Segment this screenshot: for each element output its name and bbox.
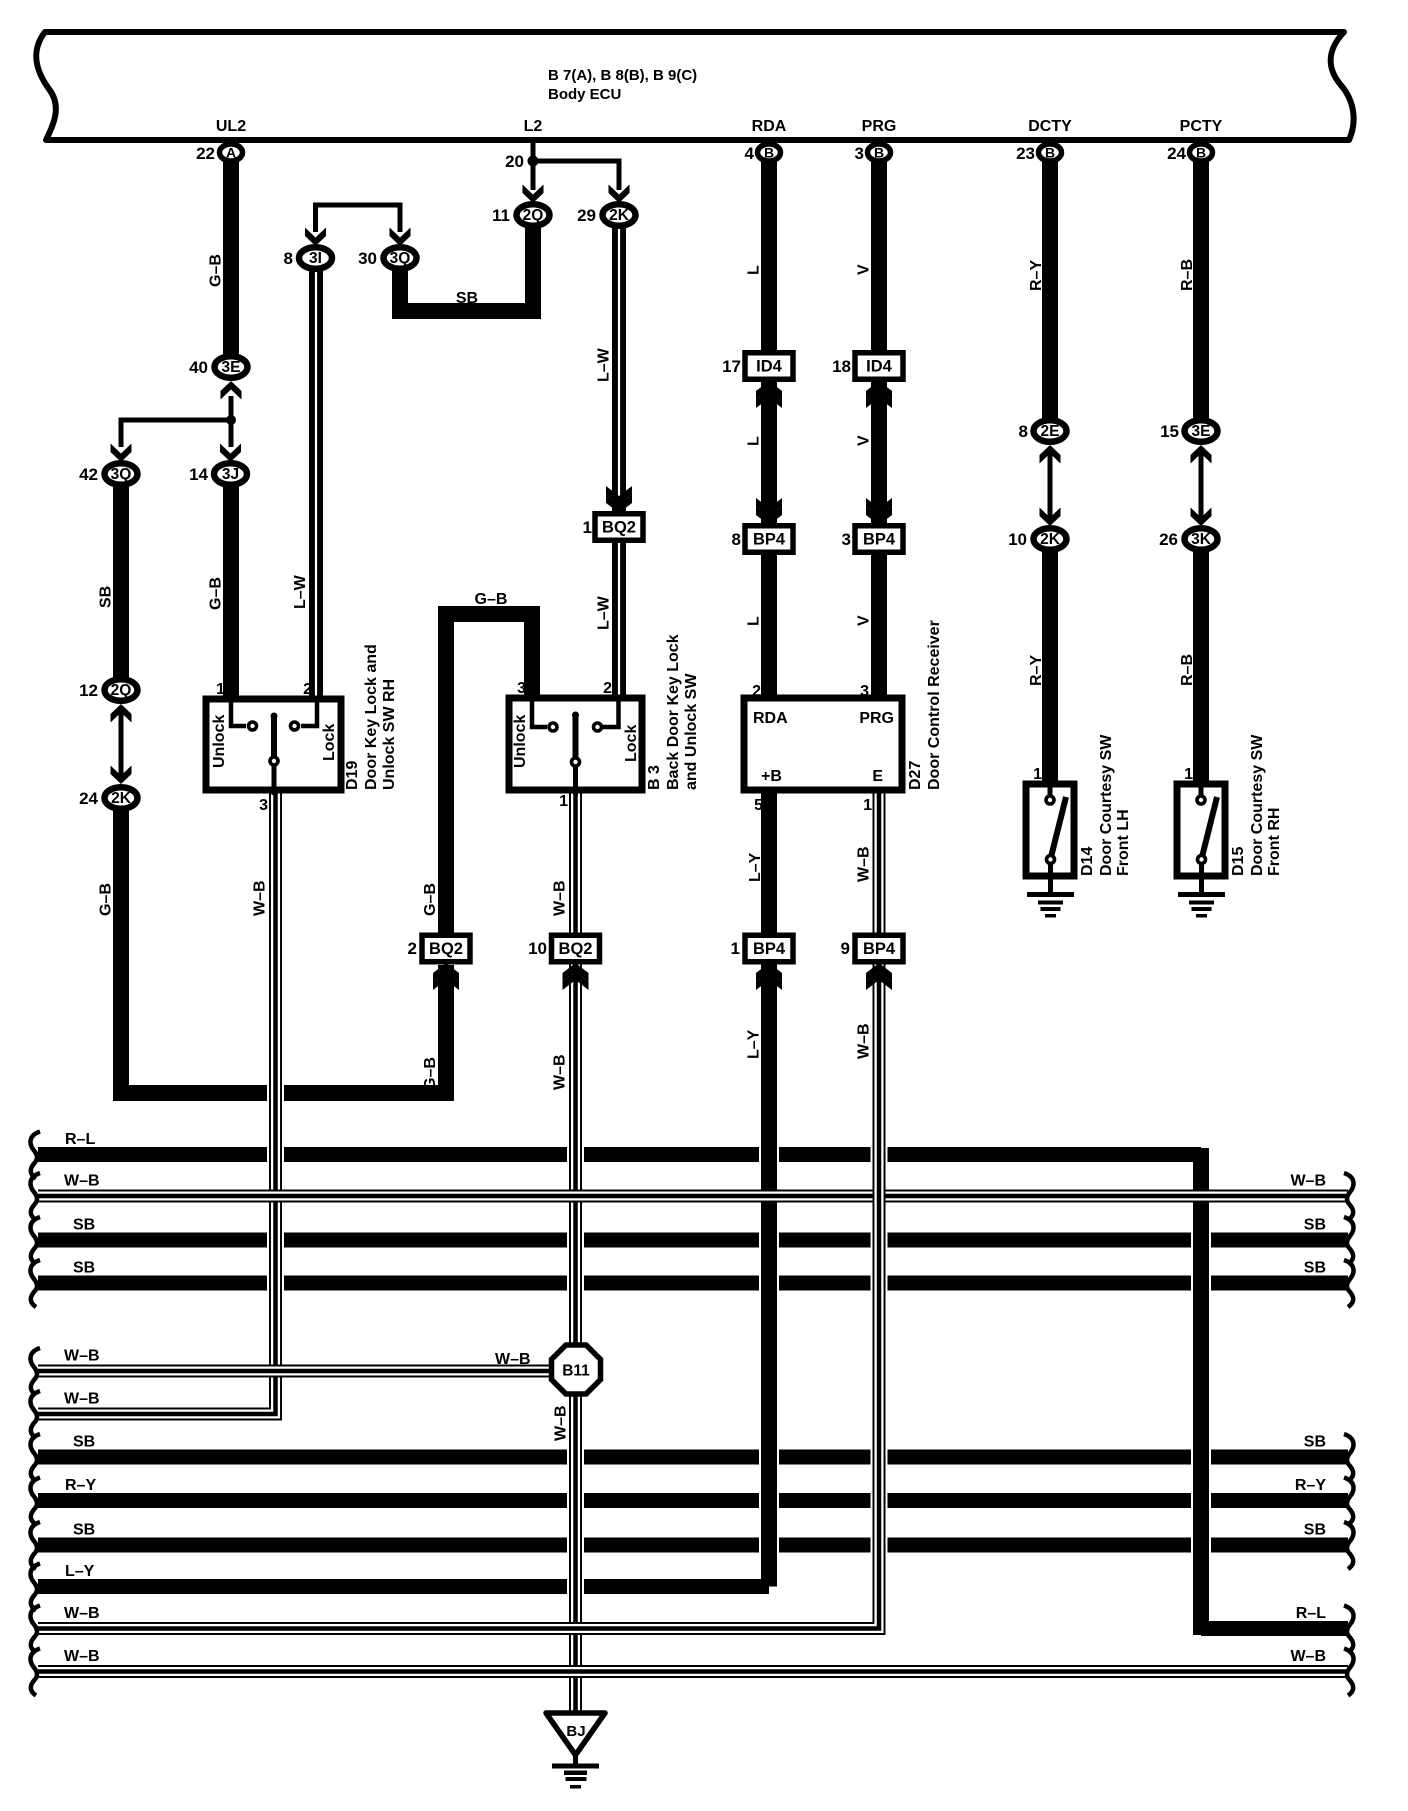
svg-text:18: 18 <box>832 357 851 376</box>
svg-text:B: B <box>1196 145 1206 161</box>
svg-text:3I: 3I <box>309 250 322 267</box>
switch B3 Back Door Key Lock and Unlock SW <box>509 680 642 810</box>
connector B pin 23 DCTY <box>1016 144 1061 163</box>
connector 2K pin 10 <box>1008 528 1066 550</box>
connector 2Q pin 12 <box>79 679 137 701</box>
wire 3I to D19 pin2 L-W <box>309 269 323 701</box>
svg-text:4: 4 <box>745 144 755 163</box>
svg-text:8: 8 <box>1019 422 1028 441</box>
ECU pin label UL2 <box>216 118 246 135</box>
wire 3J to D19 pin1 G-B <box>223 485 239 702</box>
svg-text:SB: SB <box>73 1434 95 1451</box>
switch D14 Door Courtesy SW Front LH <box>1026 766 1074 892</box>
label G-B link <box>475 591 508 608</box>
wire SB link 3Q-2Q <box>400 226 533 311</box>
svg-text:G–B: G–B <box>475 591 508 608</box>
wire PRG column lower <box>871 550 887 701</box>
svg-text:1: 1 <box>731 939 740 958</box>
wire 2K to BQ2 L-W upper <box>612 226 626 516</box>
svg-text:B 3: B 3 <box>646 765 663 790</box>
bus break symbols left <box>30 1132 40 1696</box>
label SB link <box>456 290 478 307</box>
junction box ID4 pin 17 <box>722 353 793 380</box>
wire PRG column mid <box>871 378 887 528</box>
svg-text:Unlock SW RH: Unlock SW RH <box>381 679 398 790</box>
svg-text:DCTY: DCTY <box>1028 118 1072 135</box>
svg-text:L–W: L–W <box>596 595 613 630</box>
arrow up into 3E <box>221 381 242 400</box>
svg-text:23: 23 <box>1016 144 1035 163</box>
connector B pin 4 RDA <box>745 144 781 163</box>
arrow up into BP4 9 <box>866 963 892 990</box>
svg-text:PCTY: PCTY <box>1180 118 1223 135</box>
junction box BP4 pin 8 <box>732 526 793 553</box>
svg-text:+B: +B <box>761 768 782 785</box>
svg-text:L: L <box>746 616 763 626</box>
node pin 20 junction <box>505 152 538 171</box>
svg-text:R–B: R–B <box>1179 654 1196 686</box>
svg-text:BP4: BP4 <box>753 940 786 958</box>
svg-text:PRG: PRG <box>862 118 897 135</box>
svg-text:11: 11 <box>492 206 510 225</box>
arrow down into BP4 8 <box>756 498 782 525</box>
svg-text:10: 10 <box>1008 530 1027 549</box>
bus R-L bottom right <box>1201 1621 1348 1636</box>
wire bridge 3I to 3Q <box>316 205 401 232</box>
svg-text:Body ECU: Body ECU <box>548 86 621 103</box>
svg-text:W–B: W–B <box>64 1348 100 1365</box>
label D27 <box>907 620 943 790</box>
svg-text:3: 3 <box>842 530 851 549</box>
ECU pin label DCTY <box>1028 118 1072 135</box>
connector 3J pin 14 <box>189 463 247 485</box>
bus SB 4 <box>38 1276 1348 1291</box>
svg-text:24: 24 <box>79 789 98 808</box>
junction box BQ2 pin 2 <box>408 935 470 962</box>
svg-text:BQ2: BQ2 <box>602 519 636 537</box>
label B3 <box>646 634 700 790</box>
wire DCTY column R-Y lower <box>1042 550 1058 787</box>
svg-text:40: 40 <box>189 358 208 377</box>
junction box BP4 pin 9 <box>841 935 903 962</box>
svg-text:SB: SB <box>73 1522 95 1539</box>
svg-text:Unlock: Unlock <box>512 715 529 768</box>
connector 3E pin 40 <box>189 356 247 378</box>
svg-text:L: L <box>746 265 763 275</box>
wire UL2 G-B upper <box>223 155 239 356</box>
arrow into 2Q pin 11 <box>523 185 544 204</box>
connector 2Q pin 11 <box>492 204 549 226</box>
arrow up into BQ2 10 <box>563 963 589 990</box>
svg-text:Door Courtesy SW: Door Courtesy SW <box>1249 734 1266 876</box>
svg-text:30: 30 <box>358 249 377 268</box>
svg-text:D19: D19 <box>344 761 361 790</box>
svg-text:W–B: W–B <box>1290 1173 1326 1190</box>
svg-text:R–Y: R–Y <box>1028 260 1045 291</box>
connector 3Q pin 30 <box>358 247 416 269</box>
svg-text:V: V <box>856 435 873 446</box>
svg-text:2K: 2K <box>111 790 132 807</box>
svg-text:12: 12 <box>79 681 98 700</box>
svg-text:3J: 3J <box>222 466 239 483</box>
svg-text:R–Y: R–Y <box>1295 1477 1326 1494</box>
ECU pin label RDA <box>752 118 787 135</box>
bus R-Y 8 <box>38 1493 1348 1508</box>
svg-text:B: B <box>874 145 884 161</box>
bus SB 7 <box>38 1450 1348 1465</box>
svg-text:Front LH: Front LH <box>1115 809 1132 876</box>
svg-text:2Q: 2Q <box>111 682 132 699</box>
svg-text:Door Key Lock and: Door Key Lock and <box>363 644 380 790</box>
junction box BQ2 pin 10 <box>528 935 599 962</box>
wire BQ2 to B3 pin2 L-W lower <box>612 538 626 701</box>
wire W-B vertical B3 pin1 to ground BJ <box>567 790 584 1713</box>
switch D15 Door Courtesy SW Front RH <box>1177 766 1225 892</box>
bus W-B 5 to B11 <box>38 1368 560 1375</box>
svg-text:1: 1 <box>216 681 225 698</box>
connector B pin 3 PRG <box>855 144 891 163</box>
svg-text:W–B: W–B <box>856 1023 873 1059</box>
svg-text:SB: SB <box>73 1260 95 1277</box>
svg-text:2: 2 <box>303 681 312 698</box>
svg-text:BQ2: BQ2 <box>429 940 463 958</box>
svg-text:W–B: W–B <box>64 1173 100 1190</box>
svg-text:D15: D15 <box>1230 847 1247 876</box>
connector B pin 24 PCTY <box>1167 144 1212 163</box>
svg-text:ID4: ID4 <box>756 358 783 376</box>
connector 3E pin 15 <box>1160 420 1217 442</box>
arrow down into BQ2 1 <box>606 486 632 513</box>
arrow into 2K pin 29 <box>609 185 630 204</box>
svg-text:2K: 2K <box>609 207 630 224</box>
svg-text:L: L <box>746 436 763 446</box>
junction box BP4 pin 1 <box>731 935 793 962</box>
svg-text:R–L: R–L <box>1296 1605 1326 1622</box>
svg-text:L–Y: L–Y <box>747 852 764 882</box>
svg-text:W–B: W–B <box>1290 1648 1326 1665</box>
connector 3Q pin 42 <box>79 463 137 485</box>
bus break symbols right <box>1344 1173 1354 1696</box>
wire labels rotated <box>98 254 1197 1441</box>
wire L2 pin 20 drop <box>531 140 536 161</box>
svg-text:L–Y: L–Y <box>746 1029 763 1059</box>
svg-text:SB: SB <box>98 586 115 608</box>
svg-text:3Q: 3Q <box>111 466 132 483</box>
svg-text:W–B: W–B <box>252 880 269 916</box>
svg-text:Lock: Lock <box>623 725 640 762</box>
svg-text:17: 17 <box>722 357 741 376</box>
svg-text:BP4: BP4 <box>863 531 896 549</box>
svg-text:3K: 3K <box>1191 531 1212 548</box>
arrow up into BP4 1 <box>756 963 782 990</box>
wire DCTY column R-Y upper <box>1042 158 1058 422</box>
svg-text:B11: B11 <box>562 1363 590 1380</box>
svg-text:PRG: PRG <box>859 710 894 727</box>
svg-text:3: 3 <box>259 797 268 814</box>
svg-text:1: 1 <box>1184 766 1193 783</box>
junction box BQ2 pin 1 <box>583 514 643 541</box>
connector 3I pin 8 <box>284 247 332 269</box>
ECU pin label L2 <box>524 118 543 135</box>
svg-text:Back Door Key Lock: Back Door Key Lock <box>665 634 682 790</box>
svg-text:8: 8 <box>732 530 741 549</box>
svg-text:2: 2 <box>408 939 417 958</box>
svg-text:5: 5 <box>754 797 763 814</box>
svg-text:R–B: R–B <box>1179 259 1196 291</box>
svg-text:W–B: W–B <box>856 846 873 882</box>
svg-text:G–B: G–B <box>422 1057 439 1090</box>
svg-text:Door Courtesy SW: Door Courtesy SW <box>1098 734 1115 876</box>
svg-text:G–B: G–B <box>208 577 225 610</box>
svg-text:V: V <box>856 615 873 626</box>
wire PCTY column R-B lower <box>1193 550 1209 787</box>
svg-text:20: 20 <box>505 152 524 171</box>
svg-text:E: E <box>872 768 883 785</box>
bus L-Y 10 <box>38 1579 769 1594</box>
svg-text:3: 3 <box>860 683 869 700</box>
connector 2E pin 8 <box>1019 420 1067 442</box>
wire L-Y vertical from BP4 <box>759 790 779 1587</box>
label D19 <box>344 644 398 790</box>
ECU pin label PCTY <box>1180 118 1223 135</box>
junction box ID4 pin 18 <box>832 353 903 380</box>
svg-text:BP4: BP4 <box>753 531 786 549</box>
svg-text:G–B: G–B <box>98 883 115 916</box>
svg-text:D27: D27 <box>907 761 924 790</box>
svg-text:14: 14 <box>189 465 208 484</box>
arrow into 3I pin 8 <box>305 228 326 247</box>
svg-text:W–B: W–B <box>552 1054 569 1090</box>
svg-text:Lock: Lock <box>321 724 338 761</box>
wire R-L vertical <box>1191 1148 1211 1635</box>
ground BJ <box>546 1713 605 1789</box>
svg-text:UL2: UL2 <box>216 118 246 135</box>
svg-text:SB: SB <box>73 1217 95 1234</box>
svg-text:RDA: RDA <box>753 710 788 727</box>
wire W-B D27 E to bottom corner bus 11 <box>38 790 888 1632</box>
junction box BP4 pin 3 <box>842 526 903 553</box>
wire 3Q to 2Q SB left column <box>113 485 129 679</box>
bus R-L top <box>38 1147 1201 1162</box>
svg-text:1: 1 <box>1033 766 1042 783</box>
bus W-B bottom 13 <box>38 1668 1348 1675</box>
svg-text:W–B: W–B <box>64 1391 100 1408</box>
label W-B at B11 <box>495 1351 531 1368</box>
svg-text:Unlock: Unlock <box>211 715 228 768</box>
ground D15 <box>1178 892 1225 918</box>
wire link pin20 to 2Q <box>531 161 536 190</box>
svg-text:B: B <box>764 145 774 161</box>
svg-text:1: 1 <box>559 793 568 810</box>
svg-text:2Q: 2Q <box>523 207 544 224</box>
svg-text:SB: SB <box>1304 1260 1326 1277</box>
switch D19 Door Key Lock and Unlock SW RH <box>206 681 341 814</box>
svg-text:10: 10 <box>528 939 547 958</box>
svg-text:2: 2 <box>603 680 612 697</box>
svg-text:3E: 3E <box>222 359 241 376</box>
bus W-B 2 <box>38 1193 1348 1200</box>
wire G-B bottom loop <box>121 810 446 1093</box>
svg-text:SB: SB <box>1304 1434 1326 1451</box>
svg-text:BJ: BJ <box>566 1723 585 1740</box>
wire W-B B3 pin1 upper segment <box>572 790 579 940</box>
svg-text:Front RH: Front RH <box>1266 808 1283 876</box>
wire G-B upper loop to B3 pin3 <box>446 614 532 938</box>
svg-text:L–W: L–W <box>292 574 309 609</box>
bus SB 3 <box>38 1233 1348 1248</box>
wire RDA column lower <box>761 550 777 701</box>
svg-text:D14: D14 <box>1079 847 1096 876</box>
double arrow 3E-3K <box>1191 445 1212 526</box>
svg-text:3: 3 <box>517 680 526 697</box>
svg-text:8: 8 <box>284 249 293 268</box>
svg-text:SB: SB <box>456 290 478 307</box>
wire RDA column mid <box>761 378 777 528</box>
svg-text:R–Y: R–Y <box>1028 655 1045 686</box>
svg-text:W–B: W–B <box>553 1405 570 1441</box>
svg-text:9: 9 <box>841 939 850 958</box>
svg-text:29: 29 <box>577 206 596 225</box>
receiver D27 Door Control Receiver <box>744 683 902 814</box>
svg-text:and Unlock SW: and Unlock SW <box>683 673 700 790</box>
svg-text:3E: 3E <box>1192 423 1211 440</box>
svg-text:R–L: R–L <box>65 1131 95 1148</box>
svg-text:G–B: G–B <box>208 254 225 287</box>
arrow up into ID4 17 <box>756 381 782 408</box>
svg-text:24: 24 <box>1167 144 1186 163</box>
svg-text:W–B: W–B <box>64 1605 100 1622</box>
svg-text:3Q: 3Q <box>390 250 411 267</box>
svg-text:ID4: ID4 <box>866 358 893 376</box>
connector 2K pin 24 <box>79 787 137 809</box>
svg-text:2K: 2K <box>1040 531 1061 548</box>
wire link pin20 to 2K <box>533 159 619 191</box>
arrow up into ID4 18 <box>866 381 892 408</box>
svg-text:15: 15 <box>1160 422 1179 441</box>
connector 2K pin 29 <box>577 204 635 226</box>
arrow into 3Q pin 42 <box>111 444 132 463</box>
svg-text:W–B: W–B <box>64 1648 100 1665</box>
svg-text:W–B: W–B <box>495 1351 531 1368</box>
svg-text:B: B <box>1045 145 1055 161</box>
svg-text:R–Y: R–Y <box>65 1477 96 1494</box>
svg-text:B 7(A), B 8(B), B 9(C): B 7(A), B 8(B), B 9(C) <box>548 67 697 84</box>
wire PCTY column R-B upper <box>1193 158 1209 422</box>
svg-text:RDA: RDA <box>752 118 787 135</box>
arrow up into BQ2 2 <box>433 963 459 990</box>
svg-text:G–B: G–B <box>422 883 439 916</box>
svg-text:BQ2: BQ2 <box>559 940 593 958</box>
ground D14 <box>1027 892 1074 918</box>
svg-text:2E: 2E <box>1041 423 1060 440</box>
connector 3K pin 26 <box>1159 528 1217 550</box>
svg-text:V: V <box>856 264 873 275</box>
svg-text:26: 26 <box>1159 530 1178 549</box>
connector A pin 22 UL2 <box>196 144 242 163</box>
wire W-B vertical D19 pin3 with corner to left edge <box>38 790 284 1417</box>
svg-text:3: 3 <box>855 144 864 163</box>
wire RDA column upper <box>761 158 777 355</box>
svg-text:1: 1 <box>583 518 592 537</box>
svg-text:BP4: BP4 <box>863 940 896 958</box>
bus labels left <box>64 1131 100 1665</box>
bus labels right <box>1290 1173 1326 1666</box>
svg-text:Door Control Receiver: Door Control Receiver <box>926 620 943 790</box>
ECU pin label PRG <box>862 118 897 135</box>
label D15 <box>1230 734 1283 876</box>
wire 3E junction link <box>121 396 236 447</box>
label D14 <box>1079 734 1132 876</box>
svg-text:SB: SB <box>1304 1522 1326 1539</box>
Body ECU block B7/B8/B9 <box>36 32 1353 140</box>
svg-text:1: 1 <box>863 797 872 814</box>
svg-text:A: A <box>226 145 236 161</box>
svg-text:SB: SB <box>1304 1217 1326 1234</box>
double arrow 2Q-2K <box>111 704 132 784</box>
svg-text:42: 42 <box>79 465 98 484</box>
arrow down into BP4 3 <box>866 498 892 525</box>
svg-text:L–Y: L–Y <box>65 1563 95 1580</box>
svg-text:L2: L2 <box>524 118 543 135</box>
wire PRG column upper <box>871 158 887 355</box>
node B11 junction connector <box>552 1345 601 1394</box>
bus SB 9 <box>38 1538 1348 1553</box>
arrow into 3Q pin 30 <box>390 228 411 247</box>
svg-text:L–W: L–W <box>596 347 613 382</box>
svg-text:22: 22 <box>196 144 215 163</box>
svg-text:2: 2 <box>752 683 761 700</box>
arrow into 3J pin 14 <box>220 444 241 463</box>
double arrow 2E-2K <box>1040 445 1061 526</box>
svg-text:W–B: W–B <box>552 880 569 916</box>
